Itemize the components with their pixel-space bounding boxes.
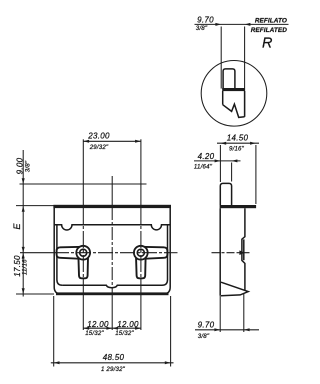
dimension 9.70 bottom dim line xyxy=(195,328,259,331)
front view outer outline xyxy=(54,206,170,294)
extension line 48.50 left xyxy=(53,296,55,367)
hole H1 boss circle xyxy=(76,246,90,260)
side view hook xyxy=(220,183,231,205)
svg-text:15/32": 15/32" xyxy=(85,330,104,337)
dimension 9.00 extension line lower (part top extended) xyxy=(16,205,54,207)
svg-text:E: E xyxy=(12,223,22,230)
svg-text:3/8": 3/8" xyxy=(198,333,210,340)
svg-text:11/64": 11/64" xyxy=(194,164,213,171)
dimension 48.50 dim line xyxy=(51,361,174,364)
detail: edge band section xyxy=(223,69,235,89)
extension line 48.50 right xyxy=(170,296,172,367)
front view inner top fold line with notches xyxy=(54,225,170,230)
vertical centreline hole H2 xyxy=(140,139,142,207)
svg-text:REFILATO: REFILATO xyxy=(255,18,287,25)
dimension 17.50 extension line bottom xyxy=(16,293,54,295)
dimension 14.50 dim line xyxy=(217,142,259,145)
left dimension chain line xyxy=(22,150,25,297)
hole H2 boss circle xyxy=(134,246,148,260)
dimension 9.70 top: dim line xyxy=(195,23,289,26)
side view top flange thick line xyxy=(220,205,257,208)
detail: panel top thick line xyxy=(222,88,245,91)
side view spring flap xyxy=(221,282,248,296)
front view inner left edge xyxy=(57,225,63,285)
svg-text:3/8": 3/8" xyxy=(24,160,31,172)
svg-text:29/32": 29/32" xyxy=(89,144,109,151)
detail: panel right edge xyxy=(244,91,246,117)
svg-text:REFILATED: REFILATED xyxy=(251,27,288,34)
hole H1 left arm xyxy=(57,247,84,259)
svg-text:9.00: 9.00 xyxy=(15,157,24,174)
svg-text:1 29/32": 1 29/32" xyxy=(101,366,126,373)
svg-text:4.20: 4.20 xyxy=(198,152,215,161)
extension line right into detail xyxy=(244,27,246,117)
svg-text:11/16": 11/16" xyxy=(22,256,29,275)
hole H2 inner circle xyxy=(137,249,144,256)
svg-text:23.00: 23.00 xyxy=(87,132,110,141)
front view top thick edge xyxy=(53,205,171,208)
hole H2 down arm xyxy=(136,253,146,279)
dimension 4.20 dim line xyxy=(194,159,241,162)
front view inner right edge xyxy=(162,225,168,285)
svg-text:14.50: 14.50 xyxy=(227,134,249,143)
hole H2 right arm xyxy=(141,247,168,259)
extension line left into detail xyxy=(220,27,222,89)
side view lower extension line left xyxy=(219,296,221,332)
vertical centreline hole H1 xyxy=(82,139,84,207)
front view bottom thick edge xyxy=(56,292,169,295)
svg-text:9.70: 9.70 xyxy=(198,321,215,330)
side view left edge xyxy=(219,208,221,296)
vertical centreline part centre xyxy=(111,176,113,207)
side view extension line hook right xyxy=(231,163,233,182)
svg-text:15/32": 15/32" xyxy=(115,330,134,337)
svg-text:R: R xyxy=(262,36,273,52)
side view centreline with arrow xyxy=(212,250,251,255)
side view lance inner line xyxy=(243,239,245,260)
detail circle xyxy=(201,61,267,127)
dimension 9.00 extension line upper xyxy=(20,183,147,185)
dimension 12.00 dim line xyxy=(83,327,141,330)
side view extension line left xyxy=(219,145,221,182)
side view extension line right xyxy=(255,145,257,204)
hole H1 inner circle xyxy=(80,249,87,256)
side view lower extension line right xyxy=(243,293,245,332)
svg-text:3/8": 3/8" xyxy=(196,25,208,32)
svg-text:12.00: 12.00 xyxy=(87,320,109,329)
hole H1 down arm xyxy=(78,253,88,279)
dimension 23.00 dim line xyxy=(83,140,141,143)
svg-text:48.50: 48.50 xyxy=(103,353,125,362)
front view inner bottom line with centre dip xyxy=(62,285,162,288)
svg-text:9.70: 9.70 xyxy=(197,15,214,24)
horizontal centreline xyxy=(20,252,54,254)
side view right edge with lance tab xyxy=(242,208,245,290)
svg-text:9/16": 9/16" xyxy=(229,146,245,153)
detail: panel left edge xyxy=(222,91,224,105)
detail: break zigzag xyxy=(223,104,245,117)
